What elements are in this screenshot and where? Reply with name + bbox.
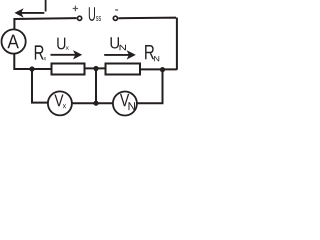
label Rx bbox=[35, 45, 46, 60]
voltmeter VN bbox=[113, 92, 137, 116]
wire RN to right edge bbox=[140, 68, 177, 70]
node A (left junction) bbox=[29, 66, 34, 71]
voltage arrow UN bbox=[104, 50, 136, 59]
wire middle vertical bbox=[95, 69, 97, 104]
wire ammeter to node A bbox=[14, 53, 50, 69]
terminal + bbox=[78, 16, 82, 20]
label Uss bbox=[89, 7, 101, 21]
label Ux bbox=[57, 38, 69, 50]
terminal - bbox=[113, 16, 117, 20]
node middle top bbox=[93, 66, 98, 71]
label + bbox=[73, 6, 78, 12]
label UN bbox=[111, 37, 126, 50]
ammeter A bbox=[2, 29, 26, 53]
label I bbox=[45, 0, 47, 12]
wire top-right bbox=[118, 18, 176, 70]
wire Vx to node B bbox=[72, 102, 96, 104]
voltage arrow Ux bbox=[51, 50, 83, 59]
label RN bbox=[145, 45, 159, 61]
label - bbox=[115, 9, 118, 10]
wire Rx to RN bbox=[86, 67, 105, 69]
resistor Rx bbox=[52, 64, 85, 75]
wire top-left bbox=[14, 18, 76, 29]
wire node B to VN bbox=[96, 102, 113, 104]
resistor RN bbox=[106, 64, 141, 75]
node B (bottom middle) bbox=[93, 101, 98, 106]
voltmeter Vx bbox=[48, 91, 72, 115]
wire node A down to Vx bbox=[32, 69, 48, 103]
wire VN to right junction bbox=[137, 70, 163, 104]
node C (right junction) bbox=[160, 67, 165, 72]
current arrow I bbox=[14, 8, 44, 17]
